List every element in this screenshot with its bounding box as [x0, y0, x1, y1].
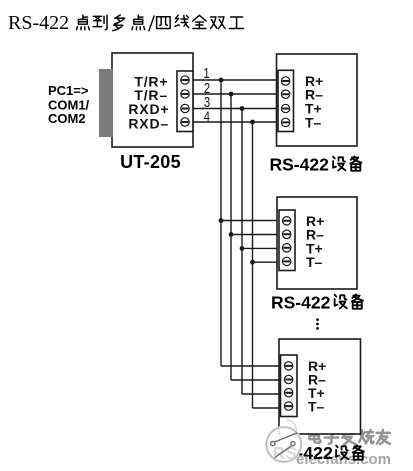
bus vertical wire 2 [230, 94, 232, 380]
svg-text:COM2: COM2 [48, 111, 86, 126]
svg-text:COM1/: COM1/ [48, 97, 90, 112]
RS-422 device 1 box [277, 54, 358, 146]
screw terminals J1 pins 1-4 [181, 76, 189, 126]
device 3 screw terminals [284, 362, 292, 411]
junction node wire4/bus4 [250, 120, 255, 125]
svg-text:T–: T– [308, 399, 325, 415]
svg-text:PC1=>: PC1=> [48, 83, 89, 98]
label PC1=>COM1/COM2 [48, 83, 90, 126]
UT-205 pin labels T/R+ T/R- RXD+ RXD- [128, 73, 169, 131]
ellipsis (more devices) [316, 318, 319, 330]
watermark switch symbol [271, 433, 298, 458]
branch wire bus2 to device2 R- [231, 234, 279, 236]
wire 2 (T/R- to R- bus) [193, 93, 278, 95]
junction node bus4/device2 tap [250, 260, 255, 265]
branch wire bus2 to device3 R- [231, 379, 281, 381]
branch wire bus3 to device3 T+ [242, 393, 281, 395]
device 2 screw terminals [283, 217, 291, 266]
bus vertical wire 3 [241, 109, 243, 395]
wire 3 (RXD+ to T+ bus) [193, 108, 278, 110]
converter UT-205 box [112, 53, 193, 147]
label RS-422设备 (device 3, under watermark) [273, 443, 364, 463]
PC connector (gray) [99, 69, 113, 137]
device 3 terminal block [281, 355, 298, 417]
branch wire bus1 to device3 R+ [221, 365, 281, 367]
svg-text:RS-422: RS-422 [271, 293, 331, 313]
junction node wire2/bus2 [229, 92, 234, 97]
branch wire bus3 to device2 T+ [242, 247, 279, 249]
wire 1 (T/R+ to R+ bus) [193, 79, 278, 81]
device 1 screw terminals [281, 77, 289, 127]
branch wire bus4 to device2 T- [253, 261, 279, 263]
svg-text:UT-205: UT-205 [120, 152, 181, 172]
terminal block J1 on UT-205 [177, 71, 193, 132]
device 2 pin labels R+ R- T+ T- [306, 213, 324, 270]
svg-text:RXD–: RXD– [128, 115, 169, 131]
bus vertical wire 1 [220, 80, 222, 366]
branch wire bus1 to device2 R+ [221, 220, 279, 222]
RS-422 device 2 box [277, 197, 357, 289]
branch wire bus4 to device3 T- [253, 407, 281, 409]
bus vertical wire 4 [252, 122, 254, 408]
wire 4 (RXD- to T- bus) [193, 121, 278, 123]
junction node bus3/device2 tap [240, 246, 245, 251]
svg-text:T–: T– [305, 115, 322, 131]
device 2 terminal block [279, 210, 295, 271]
watermark logo blob [279, 420, 297, 438]
device 1 pin labels R+ R- T+ T- [305, 73, 323, 130]
svg-text:RS-422: RS-422 [270, 155, 330, 175]
junction node bus2/device2 tap [229, 232, 234, 237]
junction node wire1/bus1 [219, 78, 224, 83]
junction node bus1/device2 tap [219, 218, 224, 223]
svg-text:T–: T– [306, 254, 323, 270]
label RS-422设备 (device 2) [271, 293, 363, 313]
junction node wire3/bus3 [240, 106, 245, 111]
watermark text elecfans.com (gray) [296, 451, 392, 469]
watermark logo circle [266, 427, 301, 462]
title: RS-422 点到多点/四线全双工 [8, 12, 244, 34]
svg-text:4: 4 [204, 108, 210, 125]
svg-text:RS-422: RS-422 [8, 12, 69, 34]
device 1 terminal block [278, 70, 294, 131]
device 3 pin labels R+ R- T+ T- [308, 358, 326, 414]
RS-422 device 3 box [279, 339, 361, 434]
watermark text 电子发烧友 (gray, behind wires) [309, 430, 390, 445]
label RS-422设备 (device 1) [270, 155, 362, 175]
